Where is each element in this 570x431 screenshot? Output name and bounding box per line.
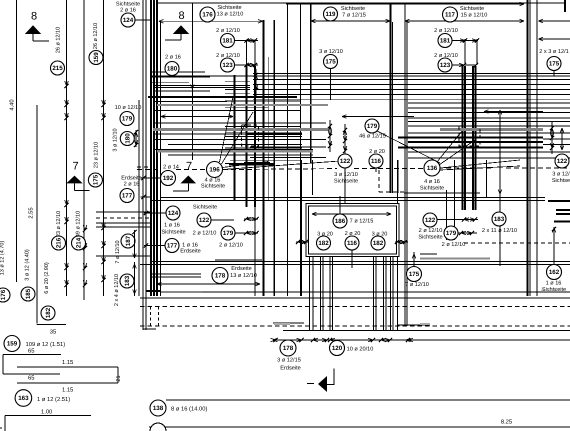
svg-text:215: 215 (52, 65, 63, 72)
wire: vertical x=390.5 (390, 257, 392, 330)
rebar: horizontal y=85.5 (155, 85, 250, 87)
callout circle 176 left edge (0, 288, 10, 302)
wire: vertical x=376.0 (375, 257, 377, 330)
svg-text:124: 124 (168, 210, 179, 217)
svg-text:123: 123 (222, 62, 233, 69)
dimension line row y21 (159, 20, 263, 22)
svg-text:182: 182 (45, 307, 52, 318)
wire: vertical x=143.0 (142, 0, 144, 330)
rebar: horizontal y=82.2 (151, 81, 189, 83)
rebar: horizontal y=75.8 (151, 75, 570, 77)
svg-text:180: 180 (167, 66, 178, 73)
wire: vertical x=300.5 (300, 3, 302, 296)
callout circle 159 (89, 51, 103, 65)
svg-text:Sichtseite: Sichtseite (217, 4, 241, 11)
svg-text:26 ø 12/10: 26 ø 12/10 (93, 23, 99, 49)
svg-text:10 ø 12/10: 10 ø 12/10 (115, 104, 142, 111)
wire: vertical x=160.5 (160, 21, 162, 296)
wire: vertical x=37.0 (36, 105, 38, 323)
svg-text:Erdseite: Erdseite (280, 365, 301, 372)
rebar: horizontal y=103.0 (408, 102, 570, 104)
svg-text:13 ø 12/10: 13 ø 12/10 (230, 272, 257, 279)
dimension y116 (161, 116, 233, 118)
rebar: horizontal y=100.8 (225, 100, 300, 102)
wire: vertical x=154.0 (153, 0, 155, 296)
callout circles 122/116 mid (338, 154, 352, 168)
L corner bottom of col line (36, 324, 38, 325)
rebar: horizontal y=84.5 (253, 84, 570, 86)
rebar: horizontal y=122.8 (155, 122, 326, 124)
dashed footing verticals (150, 307, 152, 327)
rebar: horizontal y=139.3 (155, 138, 326, 140)
wire: vertical x=386.0 (385, 257, 387, 330)
wire: vertical x=330.0 (329, 257, 331, 330)
svg-text:13 ø 12 (4.70): 13 ø 12 (4.70) (0, 241, 6, 276)
wire: vertical x=462.5 (462, 66, 464, 210)
svg-text:7 ø 12/15: 7 ø 12/15 (350, 218, 374, 225)
svg-text:214: 214 (76, 237, 83, 248)
svg-text:163: 163 (18, 395, 29, 402)
svg-text:Sichtseite: Sichtseite (341, 5, 365, 12)
svg-text:216: 216 (56, 237, 63, 248)
svg-text:35: 35 (50, 329, 56, 336)
rebar: horizontal y=72.0 (151, 71, 205, 73)
callout circle 163: 1 o 12 (2.51) (15, 390, 32, 407)
svg-text:186: 186 (335, 218, 346, 225)
rebar: horizontal y=87.5 (155, 87, 250, 89)
vertical dimension x500 (499, 110, 501, 266)
wire: vertical x=383.5 (383, 257, 385, 330)
wire: vertical x=151.0 (150, 0, 152, 296)
wire: vertical x=323.0 (322, 257, 324, 330)
svg-text:117: 117 (445, 12, 456, 19)
vertical dim x562 (561, 128, 563, 150)
wire: vertical x=146.0 (145, 0, 147, 330)
svg-text:65: 65 (28, 348, 34, 355)
svg-text:123: 123 (440, 62, 451, 69)
svg-text:138: 138 (153, 405, 164, 412)
svg-text:7 ø 12/10: 7 ø 12/10 (405, 281, 429, 288)
callout circle 120: 10 o 20/10 (330, 341, 345, 356)
heavy bar segment y134 (246, 133, 302, 135)
wire: vertical x=397.5 (397, 160, 399, 203)
wire: vertical x=407.0 (406, 22, 408, 326)
beam box callouts (333, 214, 347, 228)
svg-text:183: 183 (494, 216, 505, 223)
rebar: horizontal y=158.0 (408, 157, 570, 159)
wire: vertical x=393.0 (392, 257, 394, 330)
rebar: horizontal y=144.5 (543, 144, 570, 146)
dashed drop x379 (378, 170, 380, 192)
rebar: horizontal y=126.5 (225, 126, 300, 128)
svg-text:175: 175 (549, 61, 560, 68)
svg-text:2 x 11 ø 12/10: 2 x 11 ø 12/10 (482, 227, 517, 234)
svg-text:21: 21 (116, 375, 122, 381)
svg-text:2 ø 14: 2 ø 14 (163, 165, 179, 171)
footing corner left (142, 320, 144, 329)
wire: top chord line (157, 2, 565, 4)
svg-text:2 x 4 ø 12/10: 2 x 4 ø 12/10 (114, 274, 120, 306)
wire: vertical x=392.5 (392, 22, 394, 193)
rebar: horizontal y=134.1 (155, 133, 302, 135)
svg-text:Sichtseite: Sichtseite (116, 1, 140, 8)
rebar: horizontal y=101.5 (155, 101, 227, 103)
callout circle 178 bottom: 3 o 12/15 Erdseite (280, 340, 296, 356)
svg-text:2 ø 16: 2 ø 16 (165, 55, 181, 61)
wire: vertical x=565.0 (564, 0, 566, 12)
callout circle 183 right: 2x11 o 12/10 (492, 212, 506, 226)
crow feet pair y219/y233 (244, 218, 258, 220)
wire: vertical x=537.0 (536, 0, 538, 296)
svg-text:2 ø 12/10: 2 ø 12/10 (219, 242, 243, 249)
svg-text:3 ø 12 (4.40): 3 ø 12 (4.40) (25, 249, 31, 281)
callout circle 179 lower (221, 226, 235, 240)
svg-text:13 ø 12/10: 13 ø 12/10 (217, 11, 244, 18)
svg-text:7: 7 (72, 161, 78, 173)
leader from 179 to 136 (377, 131, 440, 163)
svg-text:176: 176 (202, 12, 213, 19)
grey tiny text marks (274, 323, 290, 325)
rebar: horizontal y=77.0 (151, 76, 210, 78)
rebar: horizontal y=137.4 (398, 136, 543, 138)
callout circle 159 bottom: 109 o 12 (1.51) (4, 336, 20, 352)
svg-text:1 ø 12 (2.51): 1 ø 12 (2.51) (37, 396, 70, 403)
rebar: horizontal y=133.0 (408, 132, 570, 134)
svg-text:177: 177 (167, 243, 178, 250)
rebar: horizontal y=81.7 (225, 81, 250, 83)
svg-text:49 ø 12/10: 49 ø 12/10 (76, 211, 82, 237)
callout Erdseite circle 178: 13 o 12/10 (215, 259, 262, 261)
svg-text:181: 181 (222, 38, 233, 45)
wire: vertical x=255.0 (254, 66, 256, 207)
wire: vertical x=263.5 (263, 20, 265, 296)
svg-text:1 ø 16: 1 ø 16 (546, 281, 562, 287)
svg-text:3 ø 12/10: 3 ø 12/10 (334, 171, 358, 178)
dimension line top y4 (286, 3, 524, 5)
wire: vertical x=287.5 (287, 3, 289, 296)
svg-text:180: 180 (125, 133, 132, 144)
svg-text:162: 162 (549, 269, 560, 276)
wire: vertical x=139.0 (138, 100, 140, 296)
dimension y340 (273, 339, 570, 341)
wire: vertical x=465.0 (464, 66, 466, 210)
rebar: horizontal y=155.0 (168, 154, 313, 156)
svg-text:10 ø 20/10: 10 ø 20/10 (347, 346, 374, 353)
callout circle 117 (443, 7, 458, 22)
svg-text:8: 8 (31, 11, 37, 23)
bar shape 159 (3, 354, 61, 356)
svg-text:8 ø 16 (14.00): 8 ø 16 (14.00) (171, 406, 207, 413)
rebar: horizontal y=93.2 (225, 92, 250, 94)
svg-text:26 ø 12/10: 26 ø 12/10 (56, 27, 62, 53)
rebar: horizontal y=126.0 (408, 125, 570, 127)
wire: vertical x=320.5 (320, 257, 322, 330)
lines above footing left (151, 273, 201, 275)
svg-text:119: 119 (326, 11, 337, 18)
wire: vertical x=268.8 (268, 57, 270, 201)
svg-text:2 ø 12/10: 2 ø 12/10 (216, 27, 240, 34)
svg-text:192: 192 (163, 175, 174, 182)
svg-text:183: 183 (124, 275, 131, 286)
wire: wall bottom double line y261.5/264.5 (150, 261, 570, 263)
circle 182 in box (317, 236, 331, 250)
svg-text:7: 7 (186, 161, 192, 173)
wire: footing lines (140, 297, 570, 299)
callout circle 196: 4 o 16 Sichtseite (207, 162, 223, 178)
svg-text:179: 179 (223, 230, 234, 237)
svg-text:176: 176 (0, 289, 7, 300)
right edge black segments (548, 200, 570, 202)
svg-text:4.40: 4.40 (9, 99, 16, 110)
wire: vertical x=312.5 (312, 160, 314, 195)
dimension inside box (312, 213, 391, 215)
dimension y284 (157, 283, 260, 285)
svg-text:2 x 3 ø 12/1: 2 x 3 ø 12/1 (539, 48, 569, 55)
svg-text:1.15: 1.15 (62, 388, 73, 394)
svg-text:8: 8 (178, 10, 184, 22)
rebar: horizontal y=108.0 (408, 107, 570, 109)
svg-text:178: 178 (283, 345, 294, 352)
leader arrow down (191, 76, 193, 89)
rebar: horizontal y=79.3 (253, 78, 570, 80)
wire: vertical x=473.0 (472, 66, 474, 210)
wire: double line y197.4/200.6 (161, 196, 545, 198)
callout circle 122 right: 3 o 12 Sichtseite (555, 154, 569, 168)
wire: vertical x=192.3 (191, 3, 193, 160)
svg-text:7 ø 12/15: 7 ø 12/15 (342, 12, 366, 19)
partial circle at bottom edge (150, 423, 166, 431)
svg-text:2 ø 12/10: 2 ø 12/10 (442, 241, 466, 248)
svg-text:Sichtse: Sichtse (552, 177, 570, 184)
svg-text:2 ø 12/10: 2 ø 12/10 (193, 230, 217, 237)
svg-text:7 ø 12/10: 7 ø 12/10 (115, 240, 121, 263)
crow feet on left verticals (65, 81, 69, 86)
horizontal lines upper right of col (96, 211, 150, 213)
crow feet beside box y242 (296, 241, 308, 243)
rebar: horizontal y=147.6 (398, 147, 543, 149)
wire: vertical x=530.0 (529, 0, 531, 296)
svg-text:116: 116 (371, 158, 382, 165)
svg-text:182: 182 (373, 240, 384, 247)
svg-text:159: 159 (93, 52, 100, 63)
callout circle 179 mid: 46 o 12/15 (365, 119, 379, 133)
circle 116 in box (345, 236, 359, 250)
svg-text:2.55: 2.55 (28, 207, 35, 218)
rebar: horizontal y=149.5 (155, 149, 313, 151)
callout circle 214 (72, 236, 86, 250)
svg-text:175: 175 (325, 59, 336, 66)
rebar: horizontal y=97.0 (148, 96, 297, 98)
rebar: horizontal y=94.6 (253, 94, 570, 96)
rebar: horizontal y=132.7 (225, 132, 302, 134)
svg-text:Erdseite: Erdseite (121, 175, 142, 182)
svg-text:122: 122 (199, 217, 210, 224)
rebar: horizontal y=89.4 (253, 88, 570, 90)
wire: grey distribution bars (157, 104, 328, 106)
svg-text:Sichtseite: Sichtseite (460, 5, 484, 12)
callout circle 122 lower-left (197, 213, 211, 227)
svg-text:122: 122 (340, 158, 351, 165)
svg-text:159: 159 (7, 341, 18, 348)
svg-text:178: 178 (215, 273, 226, 280)
svg-text:Sichtseite: Sichtseite (161, 229, 185, 236)
wire: bottom slab lines (166, 399, 570, 401)
beam box outline (306, 204, 399, 257)
svg-text:Sichtseite: Sichtseite (420, 185, 444, 192)
svg-text:1.00: 1.00 (41, 409, 52, 416)
rebar: horizontal y=107.2 (225, 106, 268, 108)
svg-text:Sichtseite: Sichtseite (418, 234, 442, 241)
callout circle 215 (51, 61, 65, 75)
wire: vertical x=527.5 (527, 0, 529, 296)
svg-text:177: 177 (122, 193, 133, 200)
svg-text:23 ø 12/10: 23 ø 12/10 (56, 211, 62, 237)
dashed centerline y169.4 (137, 168, 160, 170)
circle 182b in box (371, 236, 385, 250)
svg-text:15 ø 12/10: 15 ø 12/10 (461, 12, 488, 19)
rebar: horizontal y=118.0 (408, 117, 570, 119)
wire: vertical x=84.0 (83, 0, 85, 300)
svg-text:122: 122 (425, 217, 436, 224)
svg-text:122: 122 (557, 158, 568, 165)
wire: vertical x=157.0 (156, 0, 158, 296)
svg-text:Sichtseite: Sichtseite (201, 183, 225, 190)
rebar: horizontal y=110.6 (155, 110, 300, 112)
rebar: horizontal y=73.4 (253, 72, 570, 74)
callout circle 119 (324, 7, 338, 21)
svg-text:175: 175 (409, 271, 420, 278)
rebar: horizontal y=157.5 (250, 157, 326, 159)
rebar: horizontal y=147.0 (250, 146, 326, 148)
crow feet markers (329, 120, 331, 152)
svg-text:Erdseite: Erdseite (231, 265, 252, 272)
wire: vertical x=103.5 (103, 0, 105, 296)
svg-text:Sichtseite: Sichtseite (193, 204, 217, 211)
svg-text:185: 185 (25, 288, 32, 299)
wire: vertical x=332.5 (332, 257, 334, 330)
callout circle 216 (52, 236, 66, 250)
rebar: horizontal y=112.5 (408, 112, 570, 114)
svg-text:3 ø 12/10: 3 ø 12/10 (319, 48, 343, 55)
leader lines from 196 (220, 97, 234, 162)
svg-text:179: 179 (367, 123, 378, 130)
callout circle 175 lower: 7 o 12/10 (407, 267, 422, 282)
wire: vertical x=313.0 (312, 257, 314, 330)
svg-text:124: 124 (123, 17, 134, 24)
wire: vertical x=454.5 (454, 160, 456, 240)
svg-text:3 ø 12/10: 3 ø 12/10 (113, 128, 119, 151)
callout circle 182 left (41, 306, 55, 320)
callout circle 185 (21, 287, 35, 301)
wire: vertical x=390.5 (390, 3, 392, 193)
rebar: horizontal y=139.0 (543, 138, 570, 140)
callout circle 175 left (88, 173, 102, 187)
svg-text:175: 175 (93, 174, 100, 185)
wire: vertical x=398.0 (397, 160, 399, 193)
wire: vertical x=373.5 (373, 257, 375, 330)
svg-text:4 ø 16: 4 ø 16 (424, 179, 440, 185)
crow feet right of 122/179 (437, 219, 478, 221)
svg-text:109 ø 12 (1.51): 109 ø 12 (1.51) (26, 341, 66, 348)
wire: heavy rebar segments (148, 96, 297, 98)
dashed stirrup box mid (242, 125, 259, 146)
svg-text:179: 179 (122, 116, 133, 123)
wire: vertical x=301.5 (301, 160, 303, 296)
leaders from 136 (437, 131, 462, 162)
wire: vertical x=309.5 (309, 257, 311, 330)
rebar: horizontal y=160.2 (230, 159, 302, 161)
callout circle 179 lower right (444, 226, 458, 240)
wire: vertical x=310.8 (310, 3, 312, 163)
svg-text:3 ø 12/: 3 ø 12/ (552, 171, 570, 178)
wire: vertical x=255.0 (254, 40, 256, 67)
rebar: horizontal y=164.5 (229, 164, 275, 166)
wire: vertical x=486.5 (486, 160, 488, 198)
wire: vertical x=475.5 (475, 66, 477, 210)
wire: vertical x=66.5 (66, 0, 68, 296)
svg-text:6 ø 20 (2.90): 6 ø 20 (2.90) (44, 262, 50, 294)
rebar: horizontal y=152.0 (408, 151, 570, 153)
svg-text:8.25: 8.25 (501, 419, 512, 426)
svg-text:181: 181 (440, 38, 451, 45)
callout circle 177 lower: 1 o 16 Erdseite (165, 239, 179, 253)
rebar: horizontal y=116.7 (161, 116, 233, 118)
rebar: horizontal y=91.0 (155, 90, 210, 92)
wire: vertical x=274.3 (273, 20, 275, 296)
svg-text:65: 65 (28, 375, 34, 382)
svg-text:196: 196 (209, 167, 220, 174)
dashed stirrup box right (459, 126, 480, 146)
svg-text:120: 120 (332, 345, 343, 352)
rebar: horizontal y=89.3 (225, 88, 250, 90)
svg-text:136: 136 (427, 165, 438, 172)
wire: vertical x=446.5 (446, 190, 448, 240)
svg-text:179: 179 (446, 230, 457, 237)
section marker 1 bottom (318, 376, 327, 392)
wire: vertical x=16.5 (16, 0, 18, 282)
svg-text:23 ø 12/10: 23 ø 12/10 (94, 142, 100, 168)
rebar: horizontal y=99.7 (253, 99, 570, 101)
wire: vertical x=234.5 (234, 75, 236, 201)
rebar: horizontal y=142.0 (408, 141, 543, 143)
callout circle 176 top (200, 7, 215, 22)
rebar: horizontal y=121.5 (408, 121, 570, 123)
wire: vertical x=397.5 (397, 257, 399, 330)
wire: vertical x=255.0 (254, 207, 256, 296)
wire: vertical x=246.5 (246, 40, 248, 67)
svg-text:1.15: 1.15 (62, 360, 73, 366)
svg-text:2 ø 16: 2 ø 16 (124, 182, 140, 188)
rebar: horizontal y=144.6 (168, 144, 302, 146)
tick lines near 181/123 right (464, 39, 466, 65)
wire: vertical x=246.5 (245, 66, 247, 207)
wire: vertical x=405.0 (404, 3, 406, 326)
dashed dim y243 right (464, 242, 570, 244)
svg-text:2 ø 12/10: 2 ø 12/10 (419, 227, 443, 234)
callout circle 136: 4 o 16 Sichtseite (424, 160, 440, 176)
svg-text:Sichtseite: Sichtseite (334, 178, 358, 185)
svg-text:1 ø 16: 1 ø 16 (164, 223, 180, 229)
left margin ticks y178/y197 (141, 177, 161, 179)
svg-text:182: 182 (318, 240, 329, 247)
svg-text:116: 116 (347, 240, 358, 247)
callout circle 162: 1 o 16 Sichtseite (547, 265, 562, 280)
svg-text:2 ø 12/10: 2 ø 12/10 (434, 27, 458, 34)
svg-text:3 ø 12/15: 3 ø 12/15 (277, 357, 301, 364)
callout circle 138: 8 o 16 (14.00) (150, 400, 166, 416)
callout circle 122 lower right (423, 213, 437, 227)
svg-text:187: 187 (125, 235, 132, 246)
